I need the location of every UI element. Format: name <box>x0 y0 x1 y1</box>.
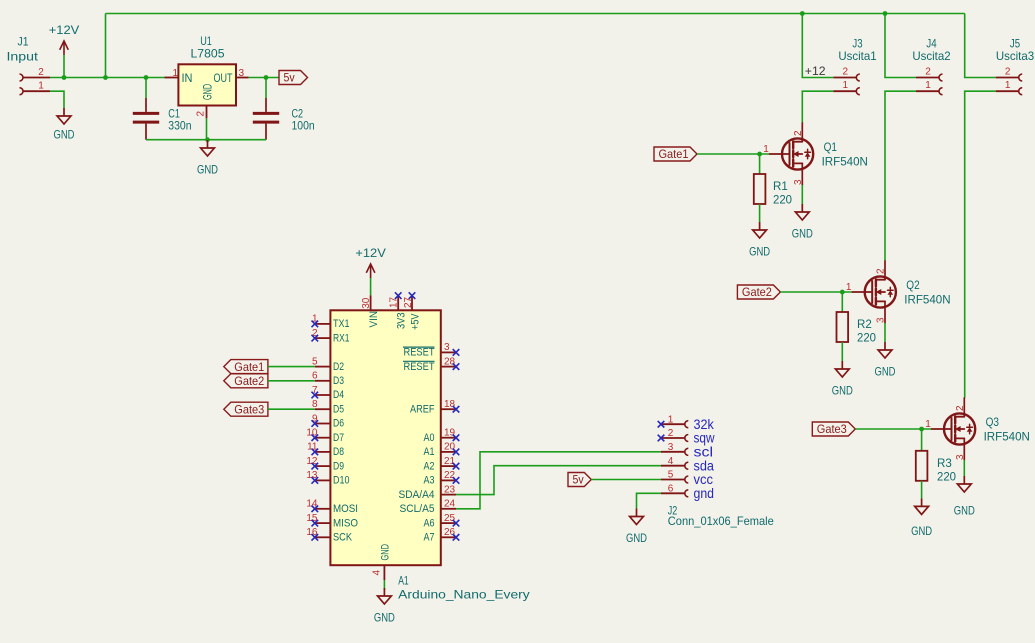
svg-text:scl: scl <box>694 444 714 459</box>
svg-text:A7: A7 <box>424 532 435 544</box>
pin 13 D10 of A1 <box>315 479 331 481</box>
junction +12V symbol tap <box>62 75 67 80</box>
pin 7 D4 of A1 <box>315 394 331 396</box>
wire Q2 source to ground <box>884 323 886 342</box>
pin 1 IN of U1 <box>165 77 179 79</box>
wire rail to C1 <box>145 78 147 99</box>
svg-text:Arduino_Nano_Every: Arduino_Nano_Every <box>398 588 530 602</box>
pin 23 SDA/A4 of A1 <box>441 494 456 496</box>
no-connect at pin 12 <box>312 463 319 470</box>
transistor Q3 IRF540N <box>932 398 976 460</box>
svg-text:GND: GND <box>201 84 215 100</box>
svg-text:330n: 330n <box>168 118 191 132</box>
svg-text:Gate1: Gate1 <box>234 360 264 374</box>
no-connect at pin 10 <box>312 434 319 441</box>
svg-text:5v: 5v <box>573 473 584 487</box>
svg-text:SDA/A4: SDA/A4 <box>399 489 435 501</box>
svg-text:3V3: 3V3 <box>396 313 408 330</box>
pin 28 RESET of A1 <box>441 366 456 368</box>
svg-text:1: 1 <box>668 414 674 425</box>
svg-text:100n: 100n <box>292 118 315 132</box>
no-connect at pin 20 <box>453 449 460 456</box>
svg-text:D2: D2 <box>333 361 344 373</box>
svg-text:+12V: +12V <box>49 23 80 37</box>
junction R3 tap <box>919 427 924 432</box>
wire J1 pin2 to main rail <box>50 77 165 79</box>
global label Gate3 at A1 D5 <box>224 402 268 416</box>
svg-text:1: 1 <box>925 419 931 430</box>
svg-text:4: 4 <box>668 456 674 467</box>
wire top bus drop to J5 pin2 <box>965 14 996 78</box>
wire R2 to ground <box>841 342 843 361</box>
svg-text:+12: +12 <box>805 64 826 78</box>
pin 17 3V3 of A1 <box>397 295 399 310</box>
svg-text:D4: D4 <box>333 389 344 401</box>
svg-text:3: 3 <box>239 68 245 79</box>
svg-text:2: 2 <box>955 405 966 411</box>
pin 3 of J2 <box>661 451 685 453</box>
svg-text:A6: A6 <box>424 517 435 529</box>
svg-text:1: 1 <box>843 80 849 91</box>
pin 1 of J4 <box>916 90 939 92</box>
pin 19 A0 of A1 <box>441 437 456 439</box>
wire J5 pin1 to MOSFET drain <box>965 91 996 398</box>
svg-text:5: 5 <box>668 470 674 481</box>
ground GND under R3 <box>915 498 929 514</box>
resistor R3 220 <box>916 451 928 481</box>
ground GND under Q2 <box>878 342 892 358</box>
svg-text:32k: 32k <box>694 417 715 432</box>
global label Gate3 at Q3 <box>812 422 855 436</box>
wire Gate3 to D5 <box>268 408 315 410</box>
pin 11 D8 of A1 <box>315 451 331 453</box>
pin 18 AREF of A1 <box>441 408 456 410</box>
wire A1 GND pin to ground <box>383 580 385 590</box>
pin 21 A2 of A1 <box>441 465 456 467</box>
svg-text:RX1: RX1 <box>333 332 350 344</box>
resistor R1 220 <box>754 174 766 204</box>
pin 1 of J5 <box>996 90 1019 92</box>
pin 22 A3 of A1 <box>441 479 456 481</box>
wire Gate3 to Q3 gate <box>855 428 932 430</box>
wire Q1 source to ground <box>801 185 803 204</box>
MCU A1 Arduino_Nano_Every body <box>330 310 440 565</box>
svg-text:D9: D9 <box>333 460 344 472</box>
svg-text:GND: GND <box>875 365 896 379</box>
no-connect at pin 21 <box>453 463 460 470</box>
svg-text:220: 220 <box>937 469 956 483</box>
pin 25 A6 of A1 <box>441 522 456 524</box>
svg-text:220: 220 <box>773 193 792 207</box>
wire J1 pin1 to ground <box>50 91 64 108</box>
pin 2 of J2 <box>661 437 685 439</box>
svg-text:19: 19 <box>444 428 456 439</box>
svg-text:SCK: SCK <box>333 532 352 544</box>
junction top rail at J4 column <box>883 11 888 16</box>
svg-text:+5V: +5V <box>410 313 422 330</box>
svg-text:2: 2 <box>925 67 931 78</box>
pin 1 of J2 <box>661 423 685 425</box>
pin 15 MISO of A1 <box>315 522 331 524</box>
svg-text:17: 17 <box>389 296 400 308</box>
pin 2 GND of U1 <box>206 105 208 119</box>
svg-text:GND: GND <box>832 384 853 398</box>
pin 1 TX1 of A1 <box>315 323 331 325</box>
no-connect at pin 27 <box>409 292 416 299</box>
pin 8 D5 of A1 <box>315 408 331 410</box>
junction C1 tap <box>144 75 149 80</box>
svg-text:GND: GND <box>197 163 218 177</box>
svg-text:6: 6 <box>668 484 674 495</box>
svg-text:220: 220 <box>857 331 876 345</box>
wire R3 to ground <box>921 481 923 499</box>
wire 5v to vcc <box>591 479 661 481</box>
svg-text:R1: R1 <box>773 179 788 193</box>
wire top bus drop to J4 pin2 <box>885 14 916 78</box>
wire Gate1 to Q1 gate <box>697 153 770 155</box>
no-connect at pin 13 <box>312 477 319 484</box>
ground GND under Q3 <box>957 476 971 492</box>
svg-text:IN: IN <box>182 71 193 85</box>
svg-text:GND: GND <box>954 504 975 518</box>
global label Gate1 at Q1 <box>654 147 697 161</box>
pin 3 RESET of A1 <box>441 351 456 353</box>
svg-text:Q1: Q1 <box>824 140 838 154</box>
svg-text:A0: A0 <box>424 432 435 444</box>
wire Q3 source to ground <box>963 460 965 476</box>
svg-text:A3: A3 <box>424 475 435 487</box>
svg-text:IRF540N: IRF540N <box>822 155 868 169</box>
svg-text:8: 8 <box>312 399 318 410</box>
junction bottom rail at U1 GND <box>205 137 210 142</box>
pin 2 of J5 <box>996 77 1019 79</box>
svg-text:6: 6 <box>312 371 318 382</box>
wire U1 GND pin to bottom rail <box>206 118 208 139</box>
svg-text:Gate1: Gate1 <box>659 147 689 161</box>
wire J4 pin1 to MOSFET drain <box>885 91 916 261</box>
svg-text:MOSI: MOSI <box>333 503 358 515</box>
no-connect at pin 7 <box>312 392 319 399</box>
svg-text:4: 4 <box>372 570 383 576</box>
svg-text:26: 26 <box>444 527 456 538</box>
no-connect at pin 17 <box>395 292 402 299</box>
svg-text:1: 1 <box>925 80 931 91</box>
svg-text:R2: R2 <box>857 317 872 331</box>
svg-text:GND: GND <box>626 531 647 545</box>
junction top-bus drop <box>103 75 108 80</box>
svg-text:24: 24 <box>444 499 456 510</box>
svg-text:D5: D5 <box>333 403 344 415</box>
pin 30 VIN of A1 <box>370 295 372 310</box>
svg-text:22: 22 <box>444 470 456 481</box>
pin 14 MOSI of A1 <box>315 508 331 510</box>
svg-text:Input: Input <box>7 49 39 63</box>
pin 5 D2 of A1 <box>315 366 331 368</box>
no-connect at pin 16 <box>312 534 319 541</box>
capacitor C2 100n <box>253 113 279 122</box>
svg-text:2: 2 <box>38 67 44 78</box>
pin 24 SCL/A5 of A1 <box>441 508 456 510</box>
power flag +12V at Arduino VIN <box>366 264 375 278</box>
wire R2 to gate node <box>841 292 843 312</box>
wire R1 to ground <box>759 204 761 222</box>
resistor R2 220 <box>837 312 849 342</box>
transistor Q2 IRF540N <box>852 261 896 323</box>
ground GND under Q1 <box>795 204 809 220</box>
wire +12V top horizontal bus <box>106 13 965 15</box>
ground GND under U1 <box>201 140 215 156</box>
svg-text:GND: GND <box>792 227 813 241</box>
pin 5 of J2 <box>661 479 685 481</box>
wire top bus drop to J3 pin2 <box>802 14 833 78</box>
svg-text:23: 23 <box>444 484 456 495</box>
pin 6 D3 of A1 <box>315 380 331 382</box>
svg-text:Gate2: Gate2 <box>234 374 264 388</box>
svg-text:GND: GND <box>374 611 395 625</box>
svg-text:30: 30 <box>361 297 372 309</box>
wire J3 pin1 to MOSFET drain <box>802 91 833 123</box>
svg-text:TX1: TX1 <box>333 318 350 330</box>
svg-text:sda: sda <box>694 458 715 473</box>
svg-text:2: 2 <box>876 268 887 274</box>
svg-text:20: 20 <box>444 442 456 453</box>
svg-text:AREF: AREF <box>410 403 435 415</box>
no-connect at pin 1 <box>312 321 319 328</box>
svg-text:GND: GND <box>911 524 932 538</box>
wire +12V to VIN pin <box>370 278 372 295</box>
wire +12V symbol to rail <box>63 55 65 78</box>
svg-text:2: 2 <box>196 111 207 117</box>
svg-text:Q2: Q2 <box>906 278 920 292</box>
pin 2 of J1 <box>23 77 50 79</box>
svg-text:RESET: RESET <box>404 361 435 373</box>
svg-text:Gate3: Gate3 <box>817 422 847 436</box>
svg-text:J1: J1 <box>18 35 29 49</box>
svg-text:gnd: gnd <box>694 486 715 501</box>
svg-text:+12V: +12V <box>355 246 386 260</box>
no-connect at J2 pin 2 <box>658 435 665 442</box>
svg-text:2: 2 <box>793 130 804 136</box>
svg-text:GND: GND <box>54 128 75 142</box>
no-connect at pin 19 <box>453 434 460 441</box>
pin 10 D7 of A1 <box>315 437 331 439</box>
svg-text:1: 1 <box>172 68 178 79</box>
pin 1 of J3 <box>833 90 856 92</box>
pin 3 OUT of U1 <box>236 77 249 79</box>
wire R3 to gate node <box>921 429 923 451</box>
capacitor C1 330n <box>133 113 159 122</box>
svg-text:vcc: vcc <box>694 472 714 487</box>
svg-text:Q3: Q3 <box>986 415 1000 429</box>
svg-text:A2: A2 <box>424 460 435 472</box>
no-connect at pin 2 <box>312 335 319 342</box>
no-connect at pin 18 <box>453 406 460 413</box>
svg-text:1: 1 <box>763 144 769 155</box>
global label Gate2 at Q2 <box>737 285 780 299</box>
pin 6 of J2 <box>661 492 685 494</box>
pin 27 +5V of A1 <box>411 295 413 310</box>
svg-text:RESET: RESET <box>404 347 435 359</box>
transistor Q1 IRF540N <box>770 123 814 185</box>
svg-text:SCL/A5: SCL/A5 <box>400 503 435 515</box>
global label 5v at U1 output <box>279 71 308 85</box>
pin 26 A7 of A1 <box>441 536 456 538</box>
svg-text:1: 1 <box>1005 80 1011 91</box>
wire +12V drop to input rail <box>105 14 107 78</box>
no-connect at pin 26 <box>453 534 460 541</box>
power flag +12V at J1 <box>60 41 69 55</box>
wire Gate2 to D3 <box>268 380 315 382</box>
ground GND under J1 <box>57 108 71 124</box>
svg-text:5v: 5v <box>284 71 295 85</box>
svg-text:GND: GND <box>380 544 392 561</box>
svg-text:IRF540N: IRF540N <box>904 293 950 307</box>
pin 2 RX1 of A1 <box>315 337 331 339</box>
regulator U1 L7805 body <box>178 64 236 105</box>
junction R2 tap <box>840 290 845 295</box>
svg-text:VIN: VIN <box>368 311 380 328</box>
svg-text:3: 3 <box>876 317 887 323</box>
junction C2 tap <box>264 75 269 80</box>
svg-text:A1: A1 <box>398 574 409 588</box>
svg-text:D7: D7 <box>333 432 344 444</box>
no-connect at J2 pin 1 <box>658 421 665 428</box>
pin 2 of J3 <box>833 77 856 79</box>
pin 1 of J1 <box>23 90 50 92</box>
svg-text:OUT: OUT <box>214 71 233 85</box>
pin 9 D6 of A1 <box>315 423 331 425</box>
no-connect at pin 11 <box>312 449 319 456</box>
svg-text:21: 21 <box>444 456 456 467</box>
no-connect at pin 15 <box>312 520 319 527</box>
svg-text:5: 5 <box>312 356 318 367</box>
svg-text:sqw: sqw <box>694 431 715 446</box>
pin 16 SCK of A1 <box>315 536 331 538</box>
pin 2 of J4 <box>916 77 939 79</box>
no-connect at pin 22 <box>453 477 460 484</box>
no-connect at pin 9 <box>312 420 319 427</box>
svg-text:D8: D8 <box>333 446 344 458</box>
ground GND under J2 <box>630 509 644 525</box>
no-connect at pin 14 <box>312 506 319 513</box>
pin 20 A1 of A1 <box>441 451 456 453</box>
wire SCL/A5 to scl <box>456 452 661 509</box>
svg-text:R3: R3 <box>937 456 952 470</box>
svg-text:28: 28 <box>444 356 456 367</box>
svg-text:L7805: L7805 <box>191 47 225 61</box>
svg-text:3: 3 <box>793 179 804 185</box>
wire rail to C2 <box>265 78 267 99</box>
svg-text:GND: GND <box>749 245 770 259</box>
wire bottom ground rail C1-C2 <box>146 139 266 141</box>
ground GND under R1 <box>753 222 767 238</box>
svg-text:IRF540N: IRF540N <box>984 430 1030 444</box>
global label 5v at J2 vcc <box>568 473 591 487</box>
no-connect at pin 3 <box>453 349 460 356</box>
no-connect at pin 25 <box>453 520 460 527</box>
pin 4 of J2 <box>661 465 685 467</box>
pin 12 D9 of A1 <box>315 465 331 467</box>
svg-text:25: 25 <box>444 513 456 524</box>
svg-text:D10: D10 <box>333 475 350 487</box>
svg-text:3: 3 <box>668 442 674 453</box>
junction top rail at J3 column <box>800 11 805 16</box>
svg-text:18: 18 <box>444 399 456 410</box>
svg-text:1: 1 <box>38 81 44 92</box>
svg-text:2: 2 <box>843 67 849 78</box>
svg-text:Conn_01x06_Female: Conn_01x06_Female <box>668 514 774 528</box>
no-connect at pin 28 <box>453 363 460 370</box>
svg-text:MISO: MISO <box>333 517 358 529</box>
pin 4 GND of A1 <box>383 565 385 580</box>
wire Gate1 to D2 <box>268 366 315 368</box>
svg-text:D3: D3 <box>333 375 344 387</box>
svg-text:Uscita1: Uscita1 <box>838 49 877 63</box>
svg-text:Gate3: Gate3 <box>234 402 264 416</box>
svg-text:Uscita2: Uscita2 <box>912 49 951 63</box>
global label Gate1 at A1 D2 <box>224 360 268 374</box>
svg-text:3: 3 <box>955 454 966 460</box>
svg-text:2: 2 <box>1005 67 1011 78</box>
ground GND under R2 <box>835 361 849 377</box>
svg-text:A1: A1 <box>424 446 435 458</box>
svg-text:D6: D6 <box>333 418 344 430</box>
wire Gate2 to Q2 gate <box>780 291 852 293</box>
ground GND under A1 <box>378 588 392 604</box>
wire OUT to 5v label <box>249 77 280 79</box>
svg-text:Gate2: Gate2 <box>742 285 772 299</box>
svg-text:3: 3 <box>444 342 450 353</box>
wire J2 gnd to ground <box>637 493 662 508</box>
svg-text:1: 1 <box>846 282 852 293</box>
wire R1 to gate node <box>759 154 761 174</box>
svg-text:2: 2 <box>668 428 674 439</box>
wire SDA/A4 to sda <box>456 466 661 495</box>
junction R1 tap <box>757 152 762 157</box>
global label Gate2 at A1 D3 <box>224 374 268 388</box>
svg-text:Uscita3: Uscita3 <box>996 49 1035 63</box>
